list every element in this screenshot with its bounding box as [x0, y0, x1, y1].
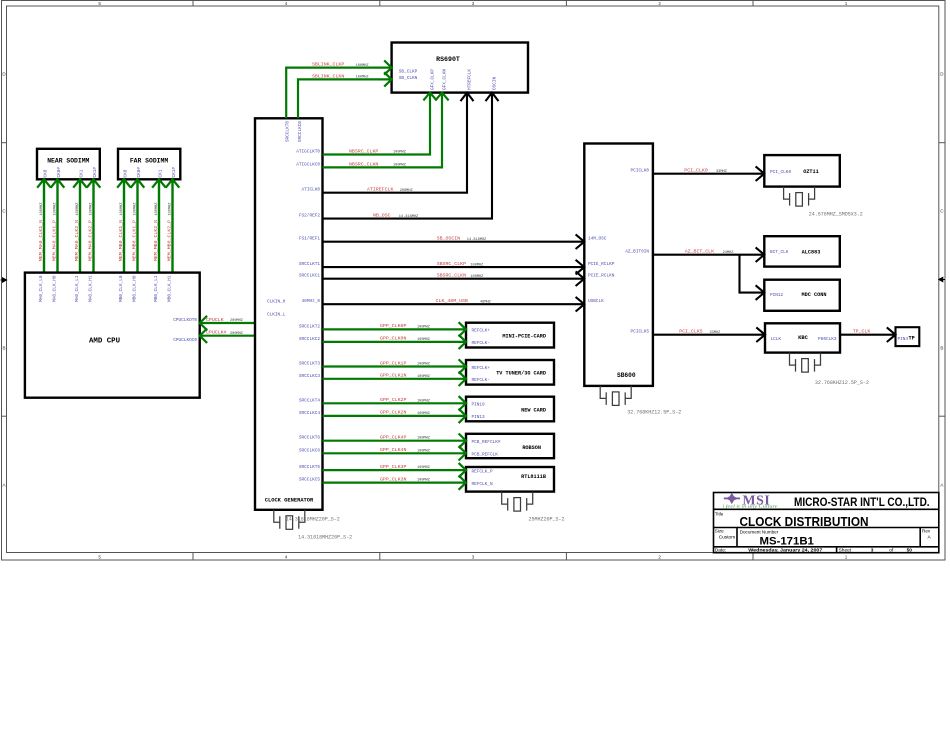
svg-text:48MHz_0: 48MHz_0 [302, 299, 321, 304]
svg-text:OZT11: OZT11 [803, 169, 819, 175]
svg-text:SRCCLKT0: SRCCLKT0 [286, 121, 291, 142]
svg-text:3: 3 [871, 548, 874, 554]
svg-text:24.576MHZ_SMD5X3.2: 24.576MHZ_SMD5X3.2 [809, 212, 863, 218]
svg-text:HTREFCLK: HTREFCLK [468, 69, 473, 90]
svg-text:SRCCLKC4: SRCCLKC4 [299, 411, 320, 416]
svg-text:SRCCLKC5: SRCCLKC5 [299, 478, 320, 483]
wire AZ_BIT_CLK [653, 254, 764, 256]
svg-text:100MHZ: 100MHZ [470, 263, 484, 267]
svg-text:Title: Title [715, 512, 724, 517]
svg-text:AZ_BIT_CLK: AZ_BIT_CLK [685, 249, 714, 255]
frame midpoint arrows [1, 278, 7, 282]
svg-text:Date:: Date: [715, 548, 726, 554]
svg-text:100MHZ: 100MHZ [120, 202, 124, 216]
svg-text:RS690T: RS690T [436, 56, 460, 63]
svg-text:REFCLK+: REFCLK+ [472, 366, 491, 371]
svg-text:PCB_REFCLK#: PCB_REFCLK# [472, 440, 501, 445]
svg-text:REFCLK+: REFCLK+ [472, 329, 491, 334]
svg-text:SB_OSCIN: SB_OSCIN [437, 236, 461, 242]
svg-text:CK1: CK1 [80, 169, 85, 177]
svg-text:100MHZ: 100MHZ [356, 64, 370, 68]
svg-text:ATIGCLKT0: ATIGCLKT0 [296, 150, 320, 155]
wire SB_OSCIN [323, 241, 585, 243]
svg-text:CPUCLK#: CPUCLK# [206, 330, 227, 336]
svg-text:100MHZ: 100MHZ [90, 202, 94, 216]
svg-text:MS-171B1: MS-171B1 [760, 536, 814, 548]
svg-text:MEM_MA0_CLK1_N: MEM_MA0_CLK1_N [38, 220, 44, 261]
svg-text:32.768KHZ12.5P_S-2: 32.768KHZ12.5P_S-2 [815, 380, 869, 386]
svg-text:SRCCLKT5: SRCCLKT5 [299, 465, 320, 470]
svg-text:MINI-PCIE-CARD: MINI-PCIE-CARD [502, 333, 546, 339]
svg-text:MA0_CLK_H1: MA0_CLK_H1 [88, 275, 93, 302]
svg-text:SRCCLKC2: SRCCLKC2 [299, 337, 320, 342]
svg-text:MB0_CLK_L0: MB0_CLK_L0 [119, 275, 124, 302]
svg-text:SBSRC_CLKP: SBSRC_CLKP [437, 261, 466, 267]
svg-text:ATIGCLKC0: ATIGCLKC0 [296, 162, 320, 167]
svg-text:GPP_CLK4N: GPP_CLK4N [380, 447, 406, 453]
svg-text:SRCCLKT6: SRCCLKT6 [299, 436, 320, 441]
svg-text:PIN13: PIN13 [472, 415, 486, 420]
svg-text:REFCLK_N: REFCLK_N [472, 482, 493, 487]
svg-text:SRCCLKC0: SRCCLKC0 [298, 121, 303, 142]
svg-text:CPUCLK: CPUCLK [206, 317, 224, 323]
svg-text:50: 50 [907, 548, 913, 554]
svg-text:CLKIN_H: CLKIN_H [267, 299, 286, 304]
svg-text:SB600: SB600 [617, 372, 636, 379]
card MINI-PCIE-CARD [466, 323, 554, 348]
svg-text:i feel it in any Culture: i feel it in any Culture [723, 504, 778, 509]
svg-text:PCICLK0: PCICLK0 [631, 169, 650, 174]
svg-text:200MHZ: 200MHZ [230, 332, 244, 336]
svg-text:5: 5 [98, 1, 101, 6]
svg-text:SBSRC_CLKN: SBSRC_CLKN [437, 273, 466, 279]
svg-text:Rev: Rev [922, 529, 931, 534]
svg-text:MEM_MA0_CLK2_N: MEM_MA0_CLK2_N [74, 220, 80, 261]
svg-text:14.318MHZ: 14.318MHZ [467, 238, 487, 242]
svg-text:PCI_CLK0: PCI_CLK0 [684, 168, 708, 174]
svg-text:PCIE_RCLKN: PCIE_RCLKN [588, 274, 615, 279]
svg-text:B: B [2, 346, 5, 351]
wire AZ_BIT_CLK branch to MDC [740, 255, 765, 293]
block FAR SODIMM [118, 149, 180, 180]
svg-text:1: 1 [845, 1, 848, 6]
svg-text:PCI_CLK5: PCI_CLK5 [679, 329, 703, 335]
wire SBLINK_CLKP [286, 68, 391, 119]
svg-text:NEW CARD: NEW CARD [521, 407, 546, 413]
svg-text:SRCCLKT1: SRCCLKT1 [299, 262, 320, 267]
svg-text:100MHZ: 100MHZ [417, 412, 431, 416]
svg-text:TP_CLK: TP_CLK [853, 329, 871, 335]
svg-text:AMD CPU: AMD CPU [89, 338, 120, 346]
wire GPP_CLK1P [323, 365, 467, 367]
svg-text:100MHZ: 100MHZ [76, 202, 80, 216]
wire memory clock MEM_MB0_CLK1_N [123, 179, 125, 272]
svg-text:SRCCLKT4: SRCCLKT4 [299, 398, 320, 403]
svg-text:PIN12: PIN12 [770, 293, 784, 298]
svg-text:MA0_CLK_L0: MA0_CLK_L0 [39, 275, 44, 302]
MSI logo [724, 492, 771, 507]
wire memory clock MEM_MA0_CLK1_P [56, 179, 58, 272]
svg-text:MEM_MA0_CLK1_P: MEM_MA0_CLK1_P [52, 220, 58, 261]
block ALC883 U6 [764, 236, 840, 266]
svg-text:14.31818MHZ20P_S-2: 14.31818MHZ20P_S-2 [298, 534, 352, 540]
block SB600 U4 [584, 144, 653, 386]
svg-text:32.768KHZ12.5P_S-2: 32.768KHZ12.5P_S-2 [627, 409, 681, 415]
svg-text:100MHZ: 100MHZ [417, 399, 431, 403]
wire GPP_CLK3N [323, 482, 467, 484]
svg-text:ATICLK0: ATICLK0 [302, 188, 321, 193]
wire NBSRC_CLKN [323, 93, 443, 168]
svg-text:2: 2 [658, 1, 661, 6]
svg-text:PCICLK5: PCICLK5 [631, 330, 650, 335]
wire memory clock MEM_MA0_CLK1_N [43, 179, 45, 272]
svg-text:100MHZ: 100MHZ [169, 202, 173, 216]
svg-text:Document Number: Document Number [740, 530, 779, 535]
svg-text:PIN4: PIN4 [898, 337, 909, 342]
wire GPP_CLK0P [323, 328, 467, 330]
svg-text:NBSRC_CLKN: NBSRC_CLKN [349, 161, 378, 167]
svg-text:48MHZ: 48MHZ [480, 300, 492, 304]
svg-text:of: of [889, 548, 894, 554]
wire SBSRC_CLKP [323, 266, 585, 268]
svg-text:NB_OSC: NB_OSC [373, 213, 391, 219]
wire SBSRC_CLKN [323, 278, 585, 280]
svg-text:4: 4 [285, 555, 288, 560]
block TP J2 [896, 327, 920, 346]
wire GPP_CLK3P [323, 469, 467, 471]
wire NB_OSC [323, 93, 493, 219]
svg-text:CLKIN_L: CLKIN_L [267, 312, 286, 317]
svg-text:AZ_BIT0IN: AZ_BIT0IN [625, 250, 649, 255]
svg-text:100MHZ: 100MHZ [417, 325, 431, 329]
svg-text:SRCCLKC3: SRCCLKC3 [299, 374, 320, 379]
svg-text:Wednesday, January 24, 2007: Wednesday, January 24, 2007 [748, 548, 822, 554]
wire PCI_CLK5 [653, 334, 765, 336]
svg-text:SB_CLKP: SB_CLKP [399, 69, 418, 74]
block KBC U7 [765, 323, 840, 352]
svg-text:GPP_CLK3N: GPP_CLK3N [380, 476, 406, 482]
svg-text:3: 3 [472, 555, 475, 560]
svg-text:1: 1 [845, 555, 848, 560]
svg-text:100MHZ: 100MHZ [40, 202, 44, 216]
svg-text:100MHZ: 100MHZ [417, 437, 431, 441]
svg-text:Sheet: Sheet [839, 548, 852, 554]
svg-text:B: B [940, 346, 943, 351]
wire GPP_CLK2N [323, 415, 467, 417]
block AMD CPU U1 [25, 273, 200, 398]
svg-text:Custom: Custom [719, 535, 736, 541]
svg-text:100MHZ: 100MHZ [393, 151, 407, 155]
wire GPP_CLK4N [323, 452, 467, 454]
svg-text:GPP_CLK2P: GPP_CLK2P [380, 397, 406, 403]
svg-text:GFX_CLKP: GFX_CLKP [430, 69, 435, 90]
svg-text:100MHZ: 100MHZ [134, 202, 138, 216]
wire TP_CLK [840, 334, 896, 336]
wire ATIREFCLK [323, 93, 468, 193]
svg-text:MICRO-STAR INT'L CO.,LTD.: MICRO-STAR INT'L CO.,LTD. [794, 495, 930, 509]
svg-text:25MHZ20P_S-2: 25MHZ20P_S-2 [529, 516, 565, 522]
svg-text:NEAR SODIMM: NEAR SODIMM [47, 158, 89, 165]
block RS690T U3 [392, 43, 528, 93]
svg-text:TP: TP [909, 335, 915, 341]
svg-text:200MHZ: 200MHZ [230, 319, 244, 323]
svg-text:LCLK: LCLK [771, 337, 782, 342]
svg-text:SBLINK_CLKN: SBLINK_CLKN [312, 73, 344, 79]
svg-text:MB0_CLK_H0: MB0_CLK_H0 [132, 275, 137, 302]
svg-text:FS2/REF2: FS2/REF2 [299, 214, 320, 219]
svg-text:SBLINK_CLKP: SBLINK_CLKP [312, 62, 344, 68]
svg-text:GFX_CLKN: GFX_CLKN [442, 69, 447, 90]
wire memory clock MEM_MA0_CLK2_N [79, 179, 81, 272]
svg-text:USBCLK: USBCLK [588, 299, 604, 304]
crystal Y3 24.576MHZ [784, 187, 815, 206]
svg-text:CK1#: CK1# [93, 167, 98, 178]
svg-text:Size: Size [715, 529, 724, 534]
svg-text:BIT_CLK: BIT_CLK [770, 250, 789, 255]
wire CPUCLK [200, 322, 255, 324]
svg-text:OSCIN: OSCIN [492, 76, 497, 90]
svg-text:ALC883: ALC883 [802, 249, 821, 255]
svg-text:CPUCLKOC0: CPUCLKOC0 [173, 338, 197, 343]
svg-text:PIN19: PIN19 [472, 403, 486, 408]
svg-text:100MHZ: 100MHZ [393, 164, 407, 168]
svg-text:FS1/REF1: FS1/REF1 [299, 237, 320, 242]
svg-text:CPUCLKOT0: CPUCLKOT0 [173, 318, 197, 323]
svg-text:GPP_CLK3P: GPP_CLK3P [380, 464, 406, 470]
svg-text:MEM_MB0_CLK1_P: MEM_MB0_CLK1_P [132, 220, 138, 261]
svg-text:CK1#: CK1# [172, 167, 177, 178]
wire SBLINK_CLKN [298, 79, 392, 118]
svg-text:100MHZ: 100MHZ [356, 76, 370, 80]
svg-text:SRCCLKC6: SRCCLKC6 [299, 448, 320, 453]
svg-text:TV TUNER/3G CARD: TV TUNER/3G CARD [496, 370, 546, 376]
svg-text:NBSRC_CLKP: NBSRC_CLKP [349, 149, 378, 155]
svg-text:SB_CLKN: SB_CLKN [399, 76, 418, 81]
wire GPP_CLK2P [323, 402, 467, 404]
svg-text:GPP_CLK1N: GPP_CLK1N [380, 373, 406, 379]
svg-text:GPP_CLK0P: GPP_CLK0P [380, 323, 406, 329]
svg-text:24MHZ: 24MHZ [723, 251, 735, 255]
wire memory clock MEM_MB0_CLK2_N [158, 179, 160, 272]
svg-text:100MHZ: 100MHZ [470, 275, 484, 279]
svg-text:14.31818MHZ20P_S-2: 14.31818MHZ20P_S-2 [286, 516, 340, 522]
svg-text:5: 5 [98, 555, 101, 560]
svg-text:PCB_REFCLK: PCB_REFCLK [472, 453, 499, 458]
svg-text:MB0_CLK_L1: MB0_CLK_L1 [154, 275, 159, 302]
svg-text:33MHZ: 33MHZ [710, 331, 722, 335]
svg-text:ATIREFCLK: ATIREFCLK [367, 187, 393, 193]
svg-text:14M_OSC: 14M_OSC [588, 237, 607, 242]
svg-text:MA0_CLK_L1: MA0_CLK_L1 [75, 275, 80, 302]
svg-text:ROBSON: ROBSON [522, 445, 541, 451]
crystal Y2 32.768KHZ [600, 386, 631, 405]
svg-text:14.318MHZ: 14.318MHZ [399, 215, 419, 219]
wire GPP_CLK0N [323, 341, 467, 343]
svg-text:GPP_CLK4P: GPP_CLK4P [380, 435, 406, 441]
wire memory clock MEM_MB0_CLK2_P [171, 179, 173, 272]
card NEW CARD [466, 397, 554, 422]
svg-text:100MHZ: 100MHZ [417, 375, 431, 379]
svg-text:MEM_MB0_CLK2_N: MEM_MB0_CLK2_N [153, 220, 159, 261]
svg-text:CLOCK GENERATOR: CLOCK GENERATOR [265, 498, 314, 504]
svg-text:200MHZ: 200MHZ [400, 189, 414, 193]
svg-text:REFCLK-: REFCLK- [472, 378, 490, 383]
wire PCI_CLK0 [653, 173, 764, 175]
block NEAR SODIMM [37, 149, 100, 180]
svg-text:MEM_MB0_CLK2_P: MEM_MB0_CLK2_P [167, 220, 173, 261]
block MDC CONN J1 [764, 280, 840, 311]
svg-text:SRCCLKC1: SRCCLKC1 [299, 274, 320, 279]
svg-text:100MHZ: 100MHZ [417, 479, 431, 483]
crystal Y1 14.31818MHZ [274, 510, 305, 529]
svg-text:2: 2 [658, 555, 661, 560]
svg-text:100MHZ: 100MHZ [417, 363, 431, 367]
svg-text:CK0: CK0 [44, 169, 49, 177]
svg-text:KBC: KBC [798, 335, 808, 341]
svg-text:REFCLK-: REFCLK- [472, 341, 490, 346]
card TV TUNER/3G CARD [466, 360, 554, 385]
wire memory clock MEM_MB0_CLK1_P [136, 179, 138, 272]
svg-text:GPP_CLK1P: GPP_CLK1P [380, 360, 406, 366]
card RTL8111B U8 [466, 467, 554, 492]
svg-text:100MHZ: 100MHZ [417, 466, 431, 470]
svg-text:33MHZ: 33MHZ [716, 170, 728, 174]
svg-text:REFCLK_P: REFCLK_P [472, 469, 493, 474]
title block [714, 493, 939, 553]
block CLOCK GENERATOR U2 [255, 118, 323, 510]
sheet border frame [2, 1, 946, 561]
svg-text:CK0#: CK0# [137, 167, 142, 178]
svg-text:FAR SODIMM: FAR SODIMM [130, 158, 169, 165]
wire memory clock MEM_MA0_CLK2_P [92, 179, 94, 272]
crystal Y4 32.768KHZ [790, 353, 821, 372]
svg-text:GPP_CLK2N: GPP_CLK2N [380, 410, 406, 416]
crystal Y5 25MHZ [502, 492, 533, 511]
svg-text:100MHZ: 100MHZ [54, 202, 58, 216]
svg-text:100MHZ: 100MHZ [417, 449, 431, 453]
wire GPP_CLK1N [323, 378, 467, 380]
wire NBSRC_CLKP [323, 93, 431, 155]
svg-text:P80CLK3: P80CLK3 [818, 337, 837, 342]
svg-text:100MHZ: 100MHZ [417, 338, 431, 342]
svg-text:MB0_CLK_H1: MB0_CLK_H1 [167, 275, 172, 302]
svg-text:CK1: CK1 [159, 169, 164, 177]
card ROBSON [466, 434, 554, 458]
svg-text:3: 3 [472, 1, 475, 6]
svg-text:CK0: CK0 [124, 169, 129, 177]
svg-text:MA0_CLK_H0: MA0_CLK_H0 [52, 275, 57, 302]
svg-text:MEM_MB0_CLK1_N: MEM_MB0_CLK1_N [118, 220, 124, 261]
wire GPP_CLK4P [323, 440, 467, 442]
svg-text:SRCCLKT2: SRCCLKT2 [299, 324, 320, 329]
wire CLK_48M_USB [323, 303, 585, 305]
svg-text:4: 4 [285, 1, 288, 6]
svg-text:CLOCK DISTRIBUTION: CLOCK DISTRIBUTION [740, 515, 869, 529]
svg-text:100MHZ: 100MHZ [155, 202, 159, 216]
svg-text:PCI_CLK0: PCI_CLK0 [770, 170, 791, 175]
svg-text:CLK_48M_USB: CLK_48M_USB [436, 298, 468, 304]
svg-text:PCIE_RCLKP: PCIE_RCLKP [588, 262, 615, 267]
svg-text:MDC CONN: MDC CONN [802, 292, 827, 298]
wire CPUCLK# [200, 335, 255, 337]
svg-text:GPP_CLK0N: GPP_CLK0N [380, 336, 406, 342]
svg-text:RTL8111B: RTL8111B [521, 474, 546, 480]
block OZT11 U5 [764, 155, 840, 187]
svg-text:MEM_MA0_CLK2_P: MEM_MA0_CLK2_P [88, 220, 94, 261]
svg-text:SRCCLKT3: SRCCLKT3 [299, 362, 320, 367]
svg-text:CK0#: CK0# [57, 167, 62, 178]
